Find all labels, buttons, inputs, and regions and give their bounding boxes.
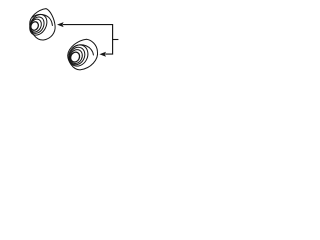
- bushing 2 (lower grommet): [65, 39, 98, 70]
- bushing 1 hole: [29, 20, 39, 31]
- bushing 2 hole: [69, 51, 81, 64]
- bushing 2 ring A: [65, 41, 92, 69]
- bushing 1 outer silhouette: [30, 9, 55, 40]
- bushing 1 rim arc: [32, 14, 53, 25]
- bushing 2 rim arc: [73, 45, 94, 55]
- bushing 1 ring A: [26, 12, 50, 39]
- bushing 2 outer silhouette: [68, 39, 98, 70]
- bushing 1 (upper-left grommet): [26, 9, 55, 40]
- bushing 1 ring B: [27, 15, 46, 36]
- bushing 2 ring B: [66, 44, 88, 67]
- bracket: leader to bushing 1, vertical, leader to bushing 2: [63, 25, 113, 54]
- arrowhead to bushing 1: [57, 22, 64, 27]
- callout tick: [113, 39, 119, 41]
- bushing 2 ring C: [68, 47, 85, 65]
- bushing 1 ring C: [28, 17, 43, 34]
- arrowhead to bushing 2: [99, 52, 106, 57]
